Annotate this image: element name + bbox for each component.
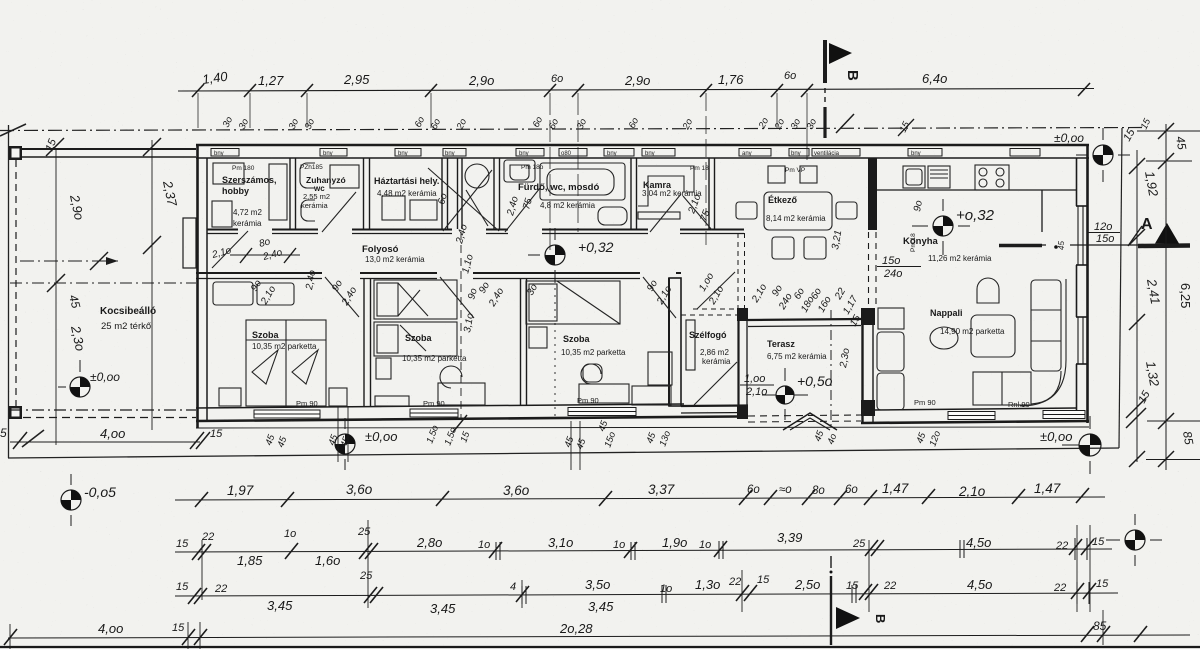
corridor dim line 2,40	[230, 254, 300, 256]
corridor top wall	[207, 229, 744, 231]
bottom wall nappali outer	[861, 421, 1089, 423]
level marker corridor +0,32	[528, 228, 614, 281]
terasz left wall	[737, 308, 748, 321]
section A-A left arrow line	[20, 260, 118, 262]
szoba1 wardrobe1	[213, 282, 253, 305]
etkezo south wall facing terasz	[748, 319, 861, 320]
door swing wc long diagonal	[428, 168, 499, 231]
row C vertical bars	[496, 538, 1087, 560]
grid line x=152	[151, 140, 153, 430]
terasz steps V mark	[783, 413, 837, 430]
szoba2 chair	[440, 366, 462, 388]
corridor bottom wall	[196, 272, 681, 274]
szelfogo top dashed opening	[693, 308, 737, 310]
tick on grid x152 mid	[143, 236, 161, 254]
right wall window kitchen	[1076, 206, 1088, 265]
section A triangle	[1155, 223, 1179, 244]
door swing zuhanyozo	[322, 192, 356, 232]
partition szoba3/szelfogo (thick)	[669, 278, 681, 406]
carport lower dash-dot line	[10, 409, 196, 411]
house top wall inner	[196, 157, 1089, 159]
nappali small side shelf	[878, 308, 904, 329]
level marker pm0,00 carport	[58, 360, 120, 397]
konyha sink	[903, 166, 925, 188]
partition furdo/kamra	[630, 158, 632, 229]
dim row D line	[175, 593, 1118, 596]
szoba2 bed2	[374, 322, 457, 356]
etkezo-nappali sofa lower	[877, 373, 904, 410]
connector verticals between rows	[10, 520, 1103, 649]
level marker konyha +0,32	[912, 199, 995, 255]
top dim ticks	[192, 83, 1090, 97]
door swing szoba3	[643, 277, 676, 318]
partition szoba1/szoba2	[363, 278, 365, 406]
level marker row-b-right	[1106, 514, 1162, 566]
partition wc/furdo	[493, 158, 495, 229]
nappali armchair	[977, 278, 999, 303]
etkezo chair left	[736, 202, 757, 219]
house left wall	[196, 144, 199, 428]
kamra shelf bottom	[638, 212, 680, 219]
groups inserted here	[0, 124, 1143, 458]
row B labels	[227, 481, 1061, 499]
site boundary dash-dot top line	[0, 128, 1143, 131]
site boundary left edge	[8, 125, 10, 458]
nappali coffee table	[930, 327, 958, 349]
bottom wall nappali inner	[874, 408, 1077, 410]
row D vertical bars	[522, 582, 1089, 604]
szoba1 nightstand right	[329, 388, 347, 406]
partition szoba2/szoba3	[520, 278, 522, 406]
door swing kamra entry	[650, 194, 681, 232]
dim row B line	[175, 497, 1105, 500]
door swing szelfogo-etkezo	[697, 272, 735, 309]
etkezo-terasz dashed verticals	[868, 232, 870, 308]
furdo lower wc	[598, 207, 627, 225]
corridor end dashed verticals	[737, 233, 739, 318]
wc door diagonal	[466, 190, 488, 226]
zuhanyozo basin U	[300, 163, 315, 188]
right wall window nappali	[1076, 317, 1088, 364]
carport corner post top-left	[9, 146, 22, 160]
terasz bottom dashed open edge	[748, 415, 861, 416]
guide verticals under dim ticks	[198, 93, 807, 255]
rung y421	[1147, 420, 1200, 422]
nappali sofa bottom part	[973, 372, 1031, 405]
wc machine circle	[465, 164, 489, 188]
door swing kamra inner	[683, 196, 712, 230]
nappali L-sofa cushions	[1031, 280, 1061, 371]
nappali L-sofa outer curve	[1020, 279, 1066, 406]
dim 4,00 under carport	[10, 441, 200, 443]
fraction 120/150 at section A	[1094, 221, 1114, 245]
szoba1 double bed	[246, 320, 326, 406]
etkezo right wall stub (dark)	[868, 158, 877, 230]
szerszamos cabinet right	[269, 164, 287, 220]
row D labels	[176, 570, 1109, 616]
chimney block on house left wall	[183, 218, 196, 268]
szoba3 bed	[526, 281, 620, 324]
right chain inner vertical	[1136, 150, 1138, 462]
rung y459	[1146, 459, 1200, 461]
szelfogo left shelf rect	[686, 320, 695, 370]
row D ticks	[188, 583, 1096, 604]
bottom wall left section outer	[196, 417, 737, 422]
konyha stove	[975, 165, 1009, 190]
szoba3 side table	[529, 327, 547, 348]
row B ticks	[195, 488, 1089, 507]
szoba3 chair	[581, 364, 601, 384]
zuhanyozo wc C	[301, 200, 315, 221]
level marker bottom-right pm0,00	[1040, 416, 1101, 474]
section A tick slash	[1128, 226, 1142, 246]
partition zuhanyozo/haztartasi	[363, 158, 365, 229]
fraction 100/210 terasz	[744, 373, 767, 398]
tick slash on A-A left	[90, 252, 108, 270]
door swing szoba2	[440, 277, 474, 318]
terasz/nappali wall	[861, 308, 875, 325]
partition haztartasi/wc	[441, 158, 443, 229]
konyha dishwasher	[928, 166, 950, 188]
tick on grid x56 row283	[47, 274, 65, 292]
door swing szelfogo	[694, 362, 737, 405]
szoba2 dresser	[376, 358, 391, 379]
furdo basin	[504, 160, 535, 182]
door swing wc cross diagonal	[443, 170, 492, 231]
top wall window tiny labels	[214, 151, 921, 157]
left edge tick top	[0, 124, 26, 136]
kamra shelf L	[638, 166, 694, 206]
szoba1 pillow folds	[252, 350, 278, 384]
dim row E line	[8, 635, 1190, 638]
szoba3 wardrobe	[648, 352, 672, 385]
top wall window boxes	[211, 149, 1040, 157]
rotated small dims cluster	[210, 192, 925, 370]
etkezo chair bottom1	[772, 237, 794, 259]
szoba2 desk	[438, 383, 485, 405]
etkezo chair right	[836, 202, 857, 219]
door diagonals	[212, 168, 737, 405]
section marker B top: flag triangle	[829, 43, 852, 64]
fraction 150/240 konyha	[882, 255, 902, 280]
tick slash on bottom line near x460	[453, 415, 467, 432]
house right wall inner segments	[1076, 158, 1078, 206]
szoba2 low shelf	[375, 396, 409, 406]
rotated 45 labels under wall	[263, 419, 943, 451]
rung y161	[1146, 160, 1192, 162]
carport lower dashed line2	[10, 417, 196, 419]
nappali tv cabinet	[971, 315, 1015, 357]
row C labels	[176, 526, 1105, 568]
section B bottom bar	[830, 556, 832, 568]
page bottom border	[0, 646, 1200, 648]
site boundary bottom line	[8, 448, 1119, 458]
bottom wall windows nappali	[948, 411, 1085, 420]
partition szerszamos/zuhanyozo	[289, 158, 291, 229]
carport top beam double line	[10, 148, 196, 150]
house top wall outer	[196, 144, 1089, 147]
bottom wall left section inner	[196, 404, 684, 408]
section A-A left arrow head	[106, 257, 118, 265]
szelfogo bottom wall	[681, 404, 748, 407]
etkezo-nappali sofa upper	[877, 332, 904, 371]
tick slash on dash line near B	[836, 114, 854, 133]
haztartasi dryer	[410, 200, 437, 220]
szerszamos bench bottom	[212, 201, 232, 227]
section B bottom flag	[836, 607, 860, 629]
right chain outer vertical	[1165, 124, 1167, 470]
level marker -0,05	[61, 474, 116, 526]
row E ticks	[4, 626, 1147, 645]
level marker bottom pm0,00	[335, 418, 397, 470]
section line B dashdot through terasz	[830, 310, 832, 428]
etkezo sideboard1	[768, 166, 785, 183]
szoba3 cabinet	[632, 386, 671, 405]
carport mid dash-dot line	[10, 282, 196, 284]
zuhanyozo shower tray	[330, 165, 359, 188]
etkezo sideboard2	[800, 166, 817, 183]
szoba1 nightstand left	[219, 388, 241, 406]
section marker B top: bar	[823, 40, 827, 83]
row E labels	[98, 619, 1107, 636]
top dim labels	[201, 68, 947, 88]
carport corner post bottom-left	[9, 406, 22, 419]
level marker terasz +0,50	[762, 368, 833, 420]
carport left open edge dashed	[15, 160, 17, 406]
site boundary right edge	[1119, 128, 1122, 448]
grid line x=56	[55, 150, 57, 445]
duct wall wc	[457, 158, 459, 229]
thin foundation line below bottom walls	[196, 427, 1089, 428]
ticks on outer chain	[1158, 123, 1174, 467]
door swing szerszamos	[212, 231, 248, 268]
tick on grid x56 top	[46, 138, 64, 156]
door swing furdo	[505, 188, 540, 232]
left edge tick bottom	[22, 430, 44, 447]
tick on grid x152 top	[143, 138, 161, 156]
szoba3 desk	[579, 384, 629, 403]
kitchen counter top edge	[877, 189, 1076, 191]
corridor window guide marks	[338, 232, 580, 470]
top dimension line	[178, 89, 1094, 92]
szerszamos cabinet top	[213, 163, 244, 184]
bottom wall windows (sills) left section	[254, 408, 636, 419]
etkezo table	[764, 192, 832, 230]
szoba2 bed1	[374, 280, 457, 319]
row C ticks	[192, 539, 1094, 560]
level marker top-right pm0,00	[1076, 128, 1130, 182]
ticks on inner chain	[1126, 158, 1146, 467]
etkezo chair bottom2	[804, 237, 826, 259]
haztartasi washer	[382, 196, 405, 220]
house right wall outer	[1086, 144, 1089, 423]
partition kamra/etkezo	[708, 158, 710, 229]
door swing szoba1	[325, 277, 359, 317]
rung y131	[1137, 130, 1200, 132]
small 30-pair numbers above wall	[221, 115, 1154, 132]
section line A-A right	[999, 244, 1042, 248]
kitchen counter right return	[1041, 190, 1043, 232]
furdo bathtub	[540, 163, 625, 200]
dim row C line	[175, 549, 1112, 552]
szoba1 wardrobe2	[257, 283, 294, 305]
